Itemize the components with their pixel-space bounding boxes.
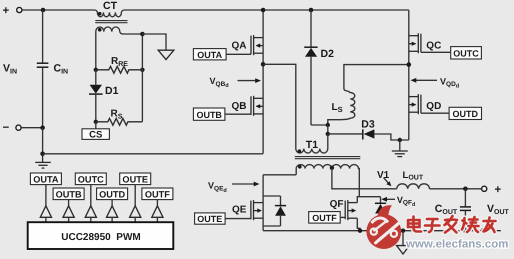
svg-text:QE: QE xyxy=(232,204,247,215)
watermark url text xyxy=(405,238,508,250)
svg-text:V1: V1 xyxy=(377,170,390,181)
wire top rail middle xyxy=(128,9,409,11)
buffer F xyxy=(152,206,163,222)
wire minus lead xyxy=(21,127,42,129)
transistor QA xyxy=(232,35,264,55)
diode D1 xyxy=(89,70,119,122)
transistor QD xyxy=(409,94,442,114)
diode DQF (QF rectifier) xyxy=(375,197,386,231)
pin box OUTD (gate drive) xyxy=(449,107,481,119)
pin box OUTF (pwm) xyxy=(142,188,173,200)
pin box OUTC (pwm) xyxy=(75,173,106,185)
wire OUTE to buffer xyxy=(134,185,136,206)
node VQDd arrow xyxy=(411,76,460,89)
wire OUTB to QB gate xyxy=(225,113,251,115)
ground (open triangle, CT) xyxy=(158,50,174,59)
node CIN top junction xyxy=(41,8,46,13)
svg-text:D1: D1 xyxy=(105,85,119,97)
wire node link xyxy=(327,125,329,134)
svg-text:OUTE: OUTE xyxy=(122,174,148,184)
svg-text:OUTA: OUTA xyxy=(197,50,222,60)
transistor QF xyxy=(330,199,358,220)
wire secondary bottom rail xyxy=(263,230,482,232)
wire OUTA to QA gate xyxy=(226,53,251,55)
node VOUT+ terminal xyxy=(482,184,502,196)
wire D2 to LS node xyxy=(311,124,328,126)
node VOUT- terminal xyxy=(482,226,502,238)
wire midpoint to T1 primary left xyxy=(263,64,296,149)
wire top rail left xyxy=(22,9,94,11)
node CS box xyxy=(82,122,109,141)
wire T1 secondary left to QE xyxy=(263,174,296,176)
wire QD gate to OUTD xyxy=(421,112,449,114)
op-amp U1 UCC28950 PWM controller xyxy=(28,222,174,249)
pin box OUTA (pwm) xyxy=(30,173,61,185)
watermark chinese text xyxy=(408,216,496,233)
diode D3 xyxy=(328,119,409,141)
wire to primary ground xyxy=(142,34,166,50)
transformer CT xyxy=(94,0,142,34)
svg-text:OUTB: OUTB xyxy=(56,189,82,199)
buffer B xyxy=(63,206,74,222)
wire OUTB to buffer xyxy=(68,200,70,206)
pin box OUTC (gate drive) xyxy=(451,47,482,59)
svg-text:OUTC: OUTC xyxy=(78,174,104,184)
diode D2 xyxy=(304,8,334,125)
svg-text:CS: CS xyxy=(89,129,102,140)
buffer C xyxy=(85,206,96,222)
wire LOUT to VOUT+ xyxy=(430,188,482,190)
wire OUTC to buffer xyxy=(90,185,92,206)
wire CT secondary left xyxy=(95,33,97,70)
pin box OUTE (gate drive) xyxy=(195,213,226,224)
svg-text:OUTB: OUTB xyxy=(196,110,222,120)
wire QC gate to OUTC xyxy=(421,51,451,53)
svg-text:QB: QB xyxy=(232,101,247,112)
wire QF drain top xyxy=(357,197,380,203)
resistor RRE xyxy=(94,56,145,73)
wire T1 center tap xyxy=(332,168,397,189)
pin box OUTD (pwm) xyxy=(97,188,128,200)
node D3/T1 junction xyxy=(326,132,330,136)
svg-text:QD: QD xyxy=(426,101,441,112)
wire QE diode branch top xyxy=(263,195,280,197)
svg-text:CT: CT xyxy=(103,0,118,12)
transistor QE xyxy=(232,200,263,220)
wire OUTA to buffer xyxy=(45,185,47,206)
pin box OUTB (gate drive) xyxy=(193,108,225,120)
wire OUTF to buffer xyxy=(156,200,158,206)
watermark elecfans logo xyxy=(366,205,401,249)
wire QA/QB bridge vertical xyxy=(262,10,264,154)
buffer D xyxy=(107,206,118,222)
svg-text:OUTE: OUTE xyxy=(197,214,222,224)
pin box OUTB (pwm) xyxy=(53,188,84,200)
svg-text:QC: QC xyxy=(426,41,441,52)
svg-text:OUTC: OUTC xyxy=(453,48,479,58)
svg-text:QF: QF xyxy=(330,199,344,210)
node LS/D2 junction xyxy=(326,123,330,127)
svg-text:+: + xyxy=(3,5,10,17)
wire left vertical to gnd rail xyxy=(42,128,44,154)
svg-text:UCC28950 PWM: UCC28950 PWM xyxy=(61,232,140,243)
inductor LS xyxy=(328,65,409,125)
svg-text:D2: D2 xyxy=(321,48,335,60)
svg-text:OUTA: OUTA xyxy=(33,174,59,184)
capacitor COUT xyxy=(435,189,471,231)
wire QE vertical xyxy=(262,175,264,231)
svg-text:OUTD: OUTD xyxy=(453,109,479,119)
node VQBd arrow xyxy=(210,76,262,89)
transistor QB xyxy=(232,96,264,116)
node VIN- terminal xyxy=(3,122,22,134)
transformer T1 xyxy=(295,134,361,197)
node V1 arrow xyxy=(377,170,391,186)
svg-text:OUTF: OUTF xyxy=(312,213,337,223)
transistor QC xyxy=(409,33,442,53)
capacitor CIN xyxy=(37,10,68,128)
node QC-QD midpoint xyxy=(407,62,412,67)
pin box OUTA (gate drive) xyxy=(193,49,226,60)
wire QF source to rail xyxy=(357,218,360,231)
svg-text:D3: D3 xyxy=(361,119,375,131)
node output ground junction xyxy=(401,229,405,233)
node QA-QB midpoint xyxy=(261,62,266,67)
node VIN+ terminal xyxy=(3,5,22,17)
node CT secondary right junction xyxy=(140,32,145,37)
wire OUTE to QE gate xyxy=(225,218,251,220)
wire OUTD to buffer xyxy=(111,200,113,206)
svg-text:+: + xyxy=(495,184,502,196)
buffer A xyxy=(40,206,51,222)
svg-text:www.elecfans.com: www.elecfans.com xyxy=(405,238,508,250)
node VQEd arrow xyxy=(208,181,260,194)
node D3 anode junction xyxy=(398,138,402,142)
wire OUTF to QF gate xyxy=(340,216,345,218)
svg-text:−: − xyxy=(3,122,10,134)
diode DQE (QE rectifier) xyxy=(275,196,286,226)
wire QE diode branch bottom xyxy=(263,225,280,227)
inductor LOUT xyxy=(397,170,430,189)
resistor RS xyxy=(96,109,143,126)
buffer E xyxy=(130,206,141,222)
svg-text:OUTF: OUTF xyxy=(145,189,170,199)
ground (bars, primary) xyxy=(35,154,51,168)
ground (open triangle, output) xyxy=(397,231,410,254)
ground (bars, D3 node) xyxy=(392,140,408,157)
svg-text:OUTD: OUTD xyxy=(99,189,125,199)
wire right bridge vertical xyxy=(408,10,410,140)
pin box OUTF (gate drive) xyxy=(309,212,341,224)
node COUT top junction xyxy=(463,187,468,192)
svg-text:QA: QA xyxy=(232,41,247,52)
wire right vertical RRE/RS xyxy=(141,34,143,122)
node VQFd arrow xyxy=(381,195,415,208)
wire primary bottom rail xyxy=(43,153,263,155)
pin box OUTE (pwm) xyxy=(120,173,151,185)
